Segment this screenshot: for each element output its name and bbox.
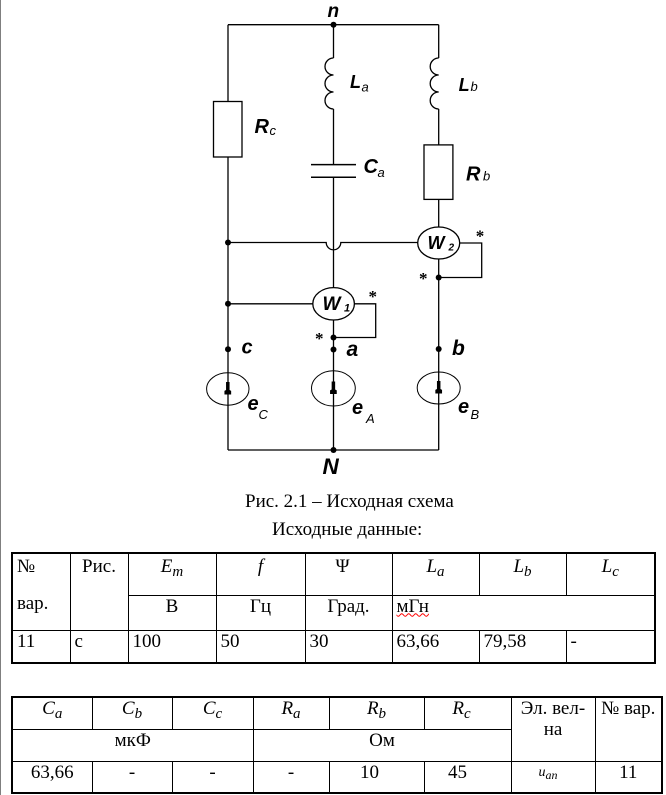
svg-text:e: e [352,397,363,419]
svg-text:e: e [458,396,469,418]
svg-text:R: R [466,164,481,186]
svg-text:1: 1 [344,303,350,315]
svg-text:a: a [362,80,369,95]
svg-text:A: A [365,411,375,426]
svg-text:c: c [242,337,253,359]
svg-text:B: B [471,407,480,422]
svg-text:C: C [259,407,269,422]
svg-text:a: a [378,165,385,180]
svg-text:L: L [459,75,470,95]
svg-text:2: 2 [448,243,455,254]
svg-text:R: R [255,116,270,138]
svg-text:b: b [471,79,478,94]
svg-text:*: * [419,269,428,288]
svg-text:e: e [248,393,259,415]
svg-text:b: b [452,337,465,360]
svg-text:*: * [369,287,378,306]
svg-text:L: L [350,72,361,92]
svg-text:a: a [347,338,359,361]
svg-text:N: N [323,454,340,479]
svg-text:n: n [328,1,340,22]
svg-text:c: c [270,123,277,138]
svg-text:b: b [483,169,490,184]
svg-text:*: * [315,329,324,348]
svg-text:W: W [323,294,343,315]
svg-text:*: * [476,227,485,246]
svg-text:W: W [428,233,447,253]
svg-text:C: C [364,156,379,178]
